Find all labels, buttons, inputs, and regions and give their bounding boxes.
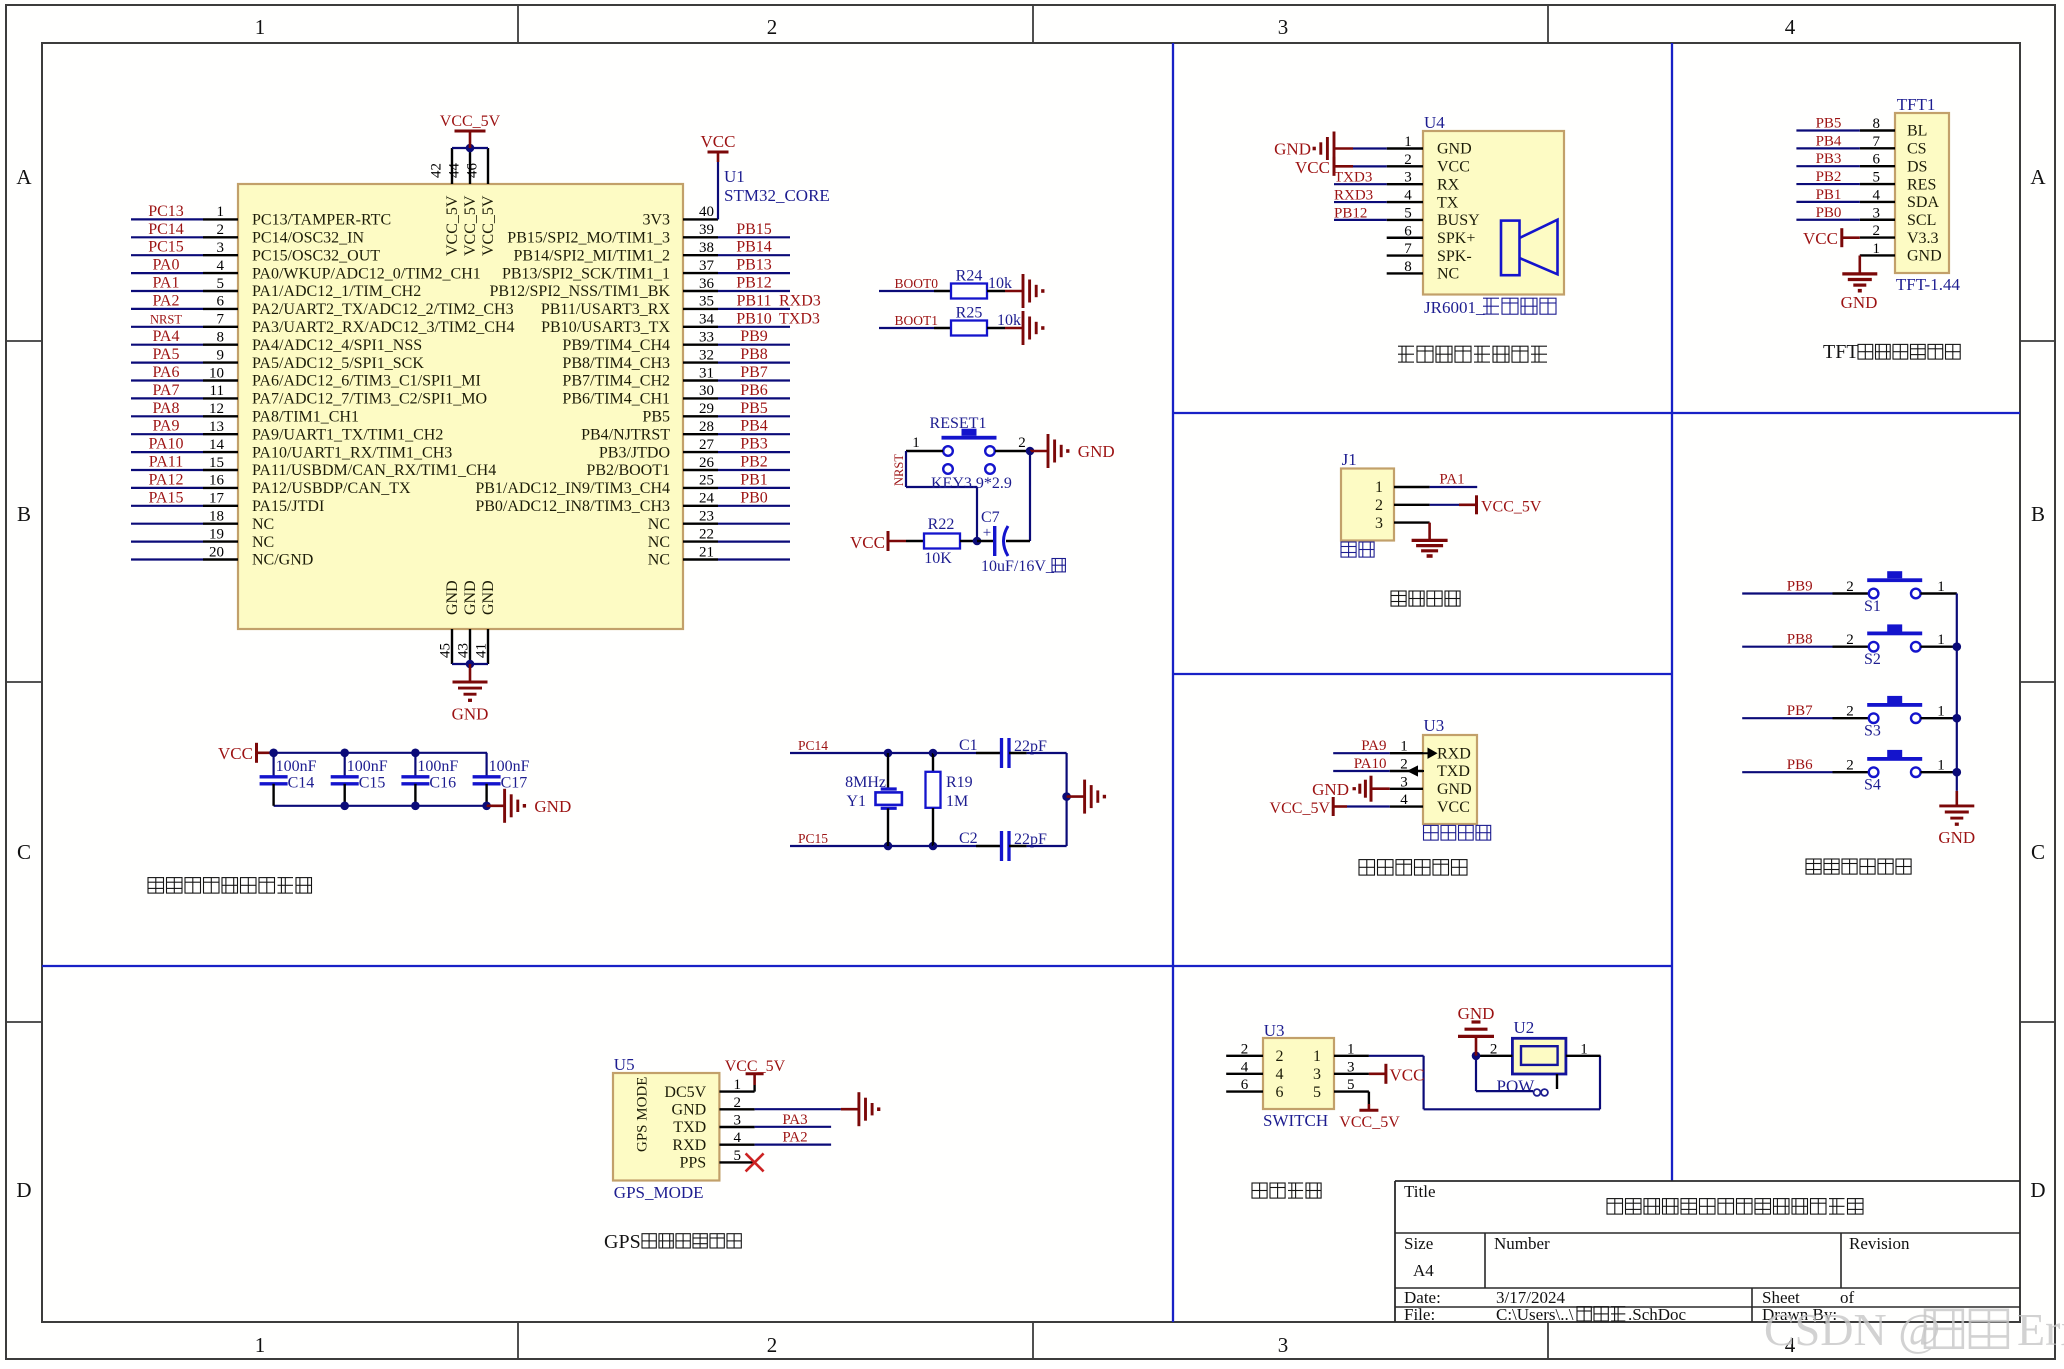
wire bottom GND rail <box>452 663 488 665</box>
svg-text:U1: U1 <box>724 167 745 186</box>
wire <box>987 290 1005 292</box>
svg-text:PA6: PA6 <box>153 364 180 381</box>
svg-text:Y1: Y1 <box>846 793 866 810</box>
svg-text:GND: GND <box>1907 248 1942 265</box>
svg-text:V3.3: V3.3 <box>1907 230 1939 247</box>
svg-text:46: 46 <box>465 163 481 179</box>
svg-text:100nF: 100nF <box>347 758 388 775</box>
svg-text:16: 16 <box>209 473 225 489</box>
junctions bus <box>1953 642 1962 651</box>
wire key to gnd <box>995 450 1026 452</box>
svg-text:5: 5 <box>734 1148 742 1164</box>
junction <box>973 537 982 546</box>
svg-text:PB2: PB2 <box>1816 169 1842 185</box>
svg-text:VCC: VCC <box>1295 158 1330 177</box>
svg-text:PB4: PB4 <box>1816 133 1842 149</box>
U1 left pin 1 wire <box>131 218 203 220</box>
section title voice module <box>1398 346 1414 362</box>
svg-text:RXD3: RXD3 <box>1334 188 1373 204</box>
svg-text:31: 31 <box>699 365 714 381</box>
svg-text:PA9: PA9 <box>1361 738 1386 754</box>
svg-text:PA2: PA2 <box>153 292 180 309</box>
svg-text:NC: NC <box>252 534 274 551</box>
wire right vertical <box>1065 753 1067 846</box>
svg-text:GND: GND <box>1437 141 1472 158</box>
svg-text:34: 34 <box>699 312 715 328</box>
svg-text:2: 2 <box>1404 152 1412 168</box>
wire PA3 <box>755 1126 832 1128</box>
U5 pin 1 <box>719 1090 754 1092</box>
svg-text:1: 1 <box>912 435 920 451</box>
switch contact circles <box>1534 1089 1541 1096</box>
svg-text:37: 37 <box>699 258 715 274</box>
U1 top pins 42 44 46 <box>451 148 453 184</box>
U1 right pin 23 wire <box>683 523 718 525</box>
svg-text:8: 8 <box>1873 116 1881 132</box>
U1 left pin 16 wire <box>131 487 203 489</box>
ic U1 STM32_CORE body <box>238 184 683 629</box>
svg-text:PA5/ADC12_5/SPI1_SCK: PA5/ADC12_5/SPI1_SCK <box>252 355 424 372</box>
svg-text:3: 3 <box>1375 515 1383 532</box>
svg-text:PC13: PC13 <box>148 203 184 220</box>
resistor R19 <box>932 753 934 772</box>
ground right of crystal <box>1067 795 1085 798</box>
svg-text:PA11/USBDM/CAN_RX/TIM1_CH4: PA11/USBDM/CAN_RX/TIM1_CH4 <box>252 462 496 479</box>
U1 right pin 32 wire <box>683 361 718 363</box>
svg-text:36: 36 <box>699 276 715 292</box>
ground at R24 <box>1005 290 1023 293</box>
svg-text:PB13: PB13 <box>736 257 772 274</box>
svg-text:10k: 10k <box>997 312 1021 329</box>
U1 left pin 11 wire <box>131 397 203 399</box>
svg-text:26: 26 <box>699 455 715 471</box>
svg-text:GND: GND <box>462 580 479 615</box>
svg-text:VCC_5V: VCC_5V <box>440 113 501 130</box>
svg-text:17: 17 <box>209 491 225 507</box>
svg-text:2: 2 <box>1846 758 1854 774</box>
svg-text:SCL: SCL <box>1907 212 1936 229</box>
svg-text:VCC_5V: VCC_5V <box>1339 1114 1400 1131</box>
wire PA9 <box>1333 752 1390 754</box>
U1 right pin 28 wire <box>683 433 718 435</box>
wire right vertical <box>1029 451 1031 541</box>
svg-text:S4: S4 <box>1864 777 1881 794</box>
svg-text:NC: NC <box>1437 266 1459 283</box>
junction <box>411 802 420 811</box>
svg-text:4: 4 <box>1404 188 1412 204</box>
svg-text:PB8: PB8 <box>1787 632 1813 648</box>
svg-text:5: 5 <box>1404 205 1412 221</box>
svg-text:TXD3: TXD3 <box>1334 170 1372 186</box>
svg-text:23: 23 <box>699 509 714 525</box>
svg-text:PB0: PB0 <box>740 489 768 506</box>
svg-text:KEY3.9*2.9: KEY3.9*2.9 <box>931 475 1012 492</box>
svg-text:3: 3 <box>1873 205 1881 221</box>
svg-text:S3: S3 <box>1864 723 1881 740</box>
section divider vertical 2 <box>1671 43 1673 1181</box>
svg-text:PA9/UART1_TX/TIM1_CH2: PA9/UART1_TX/TIM1_CH2 <box>252 426 443 443</box>
TFT1 pin 8 <box>1860 129 1895 131</box>
svg-text:18: 18 <box>209 509 224 525</box>
svg-text:2: 2 <box>767 15 778 39</box>
key S4 <box>1742 771 1832 773</box>
svg-text:PB0: PB0 <box>1816 205 1842 221</box>
svg-text:PB11: PB11 <box>737 292 772 309</box>
svg-text:GND: GND <box>672 1102 707 1119</box>
U1 left pin 14 wire <box>131 451 203 453</box>
ground GND buttons <box>1956 791 1959 806</box>
U1 left pin 19 wire <box>131 540 203 542</box>
svg-text:PA12/USBDP/CAN_TX: PA12/USBDP/CAN_TX <box>252 480 411 497</box>
U5 pin 3 <box>719 1126 754 1128</box>
wire switch pin1 to U2 pin1 (U route) <box>1369 1055 1424 1057</box>
wire top VCC rail <box>452 147 488 149</box>
capacitor C2 <box>933 845 976 847</box>
svg-text:100nF: 100nF <box>417 758 458 775</box>
svg-text:C14: C14 <box>288 775 315 792</box>
wire to bus <box>1921 717 1957 719</box>
svg-text:15: 15 <box>209 455 224 471</box>
U1 right pin 30 wire <box>683 397 718 399</box>
svg-text:GND: GND <box>1312 780 1349 799</box>
svg-text:2: 2 <box>734 1095 742 1111</box>
wire POW contacts <box>1475 1056 1477 1091</box>
svg-text:NRST: NRST <box>892 454 906 486</box>
key S2 <box>1742 646 1832 648</box>
U1 right pin 40 wire <box>683 218 718 220</box>
label servo <box>1341 542 1356 557</box>
svg-text:10uF/16V_: 10uF/16V_ <box>981 558 1055 575</box>
svg-text:C1: C1 <box>959 737 978 754</box>
U1 right pin 22 wire <box>683 540 718 542</box>
ground GND right of key <box>1030 450 1048 453</box>
svg-text:6: 6 <box>1276 1084 1284 1101</box>
svg-text:PB6/TIM4_CH1: PB6/TIM4_CH1 <box>562 391 670 408</box>
svg-text:PA4: PA4 <box>153 328 180 345</box>
svg-text:PA3: PA3 <box>782 1112 807 1128</box>
svg-text:24: 24 <box>699 491 715 507</box>
U1 left pin 13 wire <box>131 433 203 435</box>
svg-text:Title: Title <box>1404 1182 1436 1201</box>
svg-text:100nF: 100nF <box>276 758 317 775</box>
svg-text:4: 4 <box>1873 187 1881 203</box>
junction <box>269 749 278 758</box>
power port VCC at U1 pin40 <box>717 162 719 219</box>
svg-text:A4: A4 <box>1413 1261 1434 1280</box>
svg-text:4: 4 <box>1241 1059 1249 1075</box>
TFT1 pin 2 <box>1860 236 1895 238</box>
junction <box>482 802 491 811</box>
svg-text:PC14: PC14 <box>148 221 184 238</box>
svg-text:PA9: PA9 <box>153 418 180 435</box>
J1 pin 3 <box>1394 521 1430 523</box>
TFT1 pin 7 <box>1860 147 1895 149</box>
svg-text:1: 1 <box>255 15 266 39</box>
svg-text:7: 7 <box>217 312 225 328</box>
U4 pin 8 <box>1387 272 1423 274</box>
wire left loop <box>905 451 907 487</box>
svg-text:R22: R22 <box>928 516 955 533</box>
svg-text:PB14: PB14 <box>736 239 772 256</box>
U1 left pin 17 wire <box>131 505 203 507</box>
svg-text:TXD3: TXD3 <box>779 310 820 327</box>
svg-text:VCC_5V: VCC_5V <box>725 1058 786 1075</box>
svg-text:GND: GND <box>1458 1004 1495 1023</box>
svg-text:42: 42 <box>429 163 445 178</box>
svg-text:.SchDoc: .SchDoc <box>1628 1305 1687 1324</box>
svg-text:VCC_5V: VCC_5V <box>480 195 497 256</box>
svg-text:TFT: TFT <box>1823 341 1859 363</box>
junction <box>411 749 420 758</box>
svg-text:PA1: PA1 <box>1439 472 1464 488</box>
svg-text:20: 20 <box>209 544 224 560</box>
svg-text:NC/GND: NC/GND <box>252 552 313 569</box>
svg-text:NRST: NRST <box>150 312 182 326</box>
pin2 arrow out <box>1409 767 1424 775</box>
key S1 <box>1742 592 1832 594</box>
wire PC14 <box>790 752 933 754</box>
svg-text:NC: NC <box>252 516 274 533</box>
svg-text:A: A <box>16 165 32 189</box>
svg-text:1M: 1M <box>946 793 968 810</box>
power port VCC_5V at U3 pin4 <box>1347 805 1390 807</box>
power port VCC_5V at SWITCH pin5 <box>1368 1092 1370 1104</box>
svg-text:BUSY: BUSY <box>1437 212 1480 229</box>
wire PA10 <box>1333 770 1390 772</box>
svg-text:PB8/TIM4_CH3: PB8/TIM4_CH3 <box>562 355 670 372</box>
svg-text:TXD: TXD <box>673 1119 706 1136</box>
svg-text:4: 4 <box>217 258 225 274</box>
svg-text:10K: 10K <box>924 550 952 567</box>
U4 pin 4 <box>1387 201 1423 203</box>
svg-text:40: 40 <box>699 204 714 220</box>
svg-text:5: 5 <box>1873 170 1881 186</box>
svg-text:PA10/UART1_RX/TIM1_CH3: PA10/UART1_RX/TIM1_CH3 <box>252 444 452 461</box>
svg-text:38: 38 <box>699 240 714 256</box>
key RESET1 switch <box>943 446 953 456</box>
svg-text:10k: 10k <box>988 275 1012 292</box>
svg-text:PA3/UART2_RX/ADC12_3/TIM2_CH4: PA3/UART2_RX/ADC12_3/TIM2_CH4 <box>252 319 514 336</box>
U3 pin 1 <box>1390 752 1423 754</box>
U4 pin 6 <box>1387 237 1423 239</box>
capacitor C15 <box>344 753 346 777</box>
U4 pin 7 <box>1387 254 1423 256</box>
SWITCH pin 2 left <box>1226 1055 1263 1057</box>
svg-text:PB5: PB5 <box>740 400 768 417</box>
svg-text:PB4: PB4 <box>740 418 768 435</box>
capacitor C7 (polarized) <box>993 526 996 556</box>
wire PA2 <box>755 1143 832 1145</box>
SWITCH pin 6 left <box>1226 1090 1263 1092</box>
SWITCH pin 4 left <box>1226 1073 1263 1075</box>
junction <box>466 660 475 669</box>
svg-text:PB15/SPI2_MO/TIM1_3: PB15/SPI2_MO/TIM1_3 <box>507 230 670 247</box>
svg-text:PB13/SPI2_SCK/TIM1_1: PB13/SPI2_SCK/TIM1_1 <box>502 265 670 282</box>
svg-text:U3: U3 <box>1264 1021 1285 1040</box>
svg-text:1: 1 <box>1873 241 1881 257</box>
svg-text:14: 14 <box>209 437 225 453</box>
svg-text:22: 22 <box>699 526 714 542</box>
svg-text:PC15: PC15 <box>798 831 828 846</box>
svg-text:PA0: PA0 <box>153 257 180 274</box>
U3 pin 3 <box>1390 788 1423 790</box>
svg-text:PB12: PB12 <box>1334 205 1367 221</box>
svg-text:PB1: PB1 <box>740 471 768 488</box>
svg-text:6: 6 <box>1241 1077 1249 1093</box>
svg-text:PB1: PB1 <box>1816 187 1842 203</box>
svg-text:PB15: PB15 <box>736 221 772 238</box>
svg-text:35: 35 <box>699 294 714 310</box>
U1 bottom pins 45 43 41 <box>451 629 453 664</box>
U1 left pin 12 wire <box>131 415 203 417</box>
ground at R25 <box>1005 327 1023 330</box>
svg-text:PA1/ADC12_1/TIM_CH2: PA1/ADC12_1/TIM_CH2 <box>252 283 421 300</box>
ground GND at TFT pin1 <box>1859 256 1862 274</box>
svg-text:PB9/TIM4_CH4: PB9/TIM4_CH4 <box>562 337 670 354</box>
svg-text:PA12: PA12 <box>149 471 184 488</box>
svg-text:43: 43 <box>456 643 472 658</box>
svg-text:12: 12 <box>209 401 224 417</box>
section divider horizontal 3 <box>42 965 1672 967</box>
U1 left pin 15 wire <box>131 469 203 471</box>
ground GND at U3 pin3 <box>1371 787 1390 790</box>
svg-text:SDA: SDA <box>1907 194 1939 211</box>
svg-text:RES: RES <box>1907 176 1936 193</box>
svg-text:GND: GND <box>1938 828 1975 847</box>
svg-text:NC: NC <box>648 552 670 569</box>
svg-text:RXD: RXD <box>672 1137 706 1154</box>
svg-text:3: 3 <box>1347 1059 1355 1075</box>
svg-text:PB12/SPI2_NSS/TIM1_BK: PB12/SPI2_NSS/TIM1_BK <box>490 283 671 300</box>
svg-text:PB3: PB3 <box>1816 151 1842 167</box>
svg-text:PA10: PA10 <box>1354 756 1387 772</box>
svg-text:2: 2 <box>1846 579 1854 595</box>
junction <box>1062 792 1071 801</box>
svg-text:6: 6 <box>217 294 225 310</box>
svg-text:30: 30 <box>699 383 714 399</box>
svg-text:45: 45 <box>438 643 454 658</box>
U1 left pin 7 wire <box>131 326 203 328</box>
section divider vertical 1 <box>1172 43 1174 1322</box>
svg-text:6: 6 <box>1873 152 1881 168</box>
svg-text:PA5: PA5 <box>153 346 180 363</box>
U1 right pin 21 wire <box>683 558 718 560</box>
svg-text:33: 33 <box>699 330 714 346</box>
svg-text:PB5: PB5 <box>1816 116 1842 132</box>
sheet title <box>1607 1199 1623 1215</box>
U4 pin 5 <box>1387 219 1423 221</box>
power port VCC_5V at J1 pin2 <box>1430 504 1459 506</box>
power port VCC_5V at U1 top <box>469 131 472 148</box>
wire net BOOT1 <box>879 327 934 329</box>
wire U5 pin2 GND <box>755 1108 841 1110</box>
svg-text:VCC_5V: VCC_5V <box>462 195 479 256</box>
TFT1 pin 4 <box>1860 201 1895 203</box>
section title power circuit <box>1252 1183 1267 1198</box>
svg-text:B: B <box>2031 502 2045 526</box>
U1 right pin 26 wire <box>683 469 718 471</box>
svg-text:NC: NC <box>648 516 670 533</box>
svg-text:S2: S2 <box>1864 651 1881 668</box>
U1 left pin 8 wire <box>131 344 203 346</box>
svg-text:C: C <box>17 840 31 864</box>
U1 left pin 5 wire <box>131 290 203 292</box>
svg-text:11: 11 <box>210 383 224 399</box>
svg-text:PB0/ADC12_IN8/TIM3_CH3: PB0/ADC12_IN8/TIM3_CH3 <box>475 498 670 515</box>
svg-text:RESET1: RESET1 <box>930 415 987 432</box>
svg-text:C16: C16 <box>429 775 456 792</box>
capacitor C14 <box>273 753 275 777</box>
svg-text:R24: R24 <box>956 268 983 285</box>
U1 left pin 3 wire <box>131 254 203 256</box>
svg-text:PA11: PA11 <box>149 454 183 471</box>
U4 pin 1 <box>1387 147 1423 149</box>
wire PA1 <box>1430 486 1478 488</box>
svg-text:BL: BL <box>1907 123 1927 140</box>
svg-text:C:\Users\..\: C:\Users\..\ <box>1496 1305 1574 1324</box>
svg-text:1: 1 <box>1404 134 1412 150</box>
svg-text:PB2/BOOT1: PB2/BOOT1 <box>586 462 670 479</box>
svg-text:R25: R25 <box>956 305 983 322</box>
svg-text:2: 2 <box>1276 1048 1284 1065</box>
U5 pin 4 <box>719 1143 754 1145</box>
svg-text:Revision: Revision <box>1849 1234 1910 1253</box>
U1 right pin 36 wire <box>683 290 718 292</box>
svg-text:3V3: 3V3 <box>642 212 670 229</box>
svg-text:PB10: PB10 <box>736 310 772 327</box>
power port VCC at SWITCH pin3 <box>1369 1073 1386 1076</box>
svg-text:U3: U3 <box>1424 716 1445 735</box>
svg-text:7: 7 <box>1873 134 1881 150</box>
U1 left pin 4 wire <box>131 272 203 274</box>
connector J1 body <box>1341 469 1394 541</box>
resistor R24 <box>951 284 987 299</box>
svg-text:PA2/UART2_TX/ADC12_2/TIM2_CH3: PA2/UART2_TX/ADC12_2/TIM2_CH3 <box>252 301 514 318</box>
TFT1 pin 3 <box>1860 219 1895 221</box>
section title servo interface <box>1391 591 1406 606</box>
wire PC15 <box>790 845 933 847</box>
svg-text:S1: S1 <box>1864 598 1881 615</box>
svg-text:PB8: PB8 <box>740 346 768 363</box>
svg-text:2: 2 <box>1375 497 1383 514</box>
SWITCH pin 3 right <box>1334 1073 1369 1075</box>
svg-text:RXD: RXD <box>1437 745 1471 762</box>
SWITCH pin 1 right <box>1334 1055 1369 1057</box>
capacitor C17 <box>486 753 488 777</box>
no-connect X at U5 pin5 <box>746 1153 764 1171</box>
section title key control <box>1806 859 1821 874</box>
svg-text:7: 7 <box>1404 241 1412 257</box>
label wireless port <box>1424 825 1439 840</box>
U5 pin 2 <box>719 1108 754 1110</box>
svg-text:3: 3 <box>734 1113 742 1129</box>
U1 right pin 35 wire <box>683 308 718 310</box>
svg-text:DS: DS <box>1907 158 1927 175</box>
svg-text:4: 4 <box>1276 1066 1284 1083</box>
power port VCC_5V at U5 pin1 <box>753 1085 755 1092</box>
junction <box>1026 447 1035 456</box>
svg-text:8: 8 <box>1404 259 1412 275</box>
wire to bus <box>1921 592 1957 594</box>
svg-text:13: 13 <box>209 419 224 435</box>
svg-text:PA15: PA15 <box>149 489 184 506</box>
svg-text:BOOT0: BOOT0 <box>895 276 939 291</box>
svg-text:PB4/NJTRST: PB4/NJTRST <box>581 426 670 443</box>
svg-text:2: 2 <box>1846 632 1854 648</box>
svg-text:5: 5 <box>1313 1084 1321 1101</box>
svg-text:TX: TX <box>1437 194 1459 211</box>
U1 left pin 20 wire <box>131 558 203 560</box>
